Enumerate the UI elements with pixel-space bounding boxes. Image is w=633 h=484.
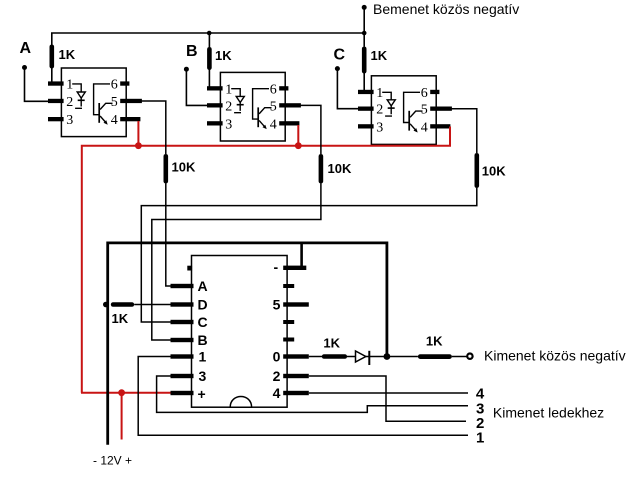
svg-text:2: 2 <box>225 99 232 114</box>
svg-text:4: 4 <box>111 113 118 128</box>
svg-text:10K: 10K <box>328 161 352 176</box>
svg-text:C: C <box>198 314 208 330</box>
svg-text:1K: 1K <box>59 47 76 62</box>
svg-text:5: 5 <box>270 99 277 114</box>
svg-text:A: A <box>198 278 208 294</box>
svg-text:3: 3 <box>199 368 207 384</box>
svg-text:Bemenet közös negatív: Bemenet közös negatív <box>373 1 519 17</box>
svg-text:6: 6 <box>111 78 118 93</box>
svg-text:B: B <box>198 332 208 348</box>
svg-text:4: 4 <box>273 385 281 401</box>
svg-text:4: 4 <box>421 120 428 135</box>
svg-text:1: 1 <box>199 349 207 365</box>
svg-text:Kimenet ledekhez: Kimenet ledekhez <box>493 404 604 420</box>
svg-text:1: 1 <box>225 82 232 97</box>
svg-text:6: 6 <box>421 86 428 101</box>
svg-text:Kimenet közös negatív: Kimenet közös negatív <box>484 348 626 364</box>
svg-text:2: 2 <box>376 103 383 118</box>
svg-text:5: 5 <box>421 103 428 118</box>
svg-text:3: 3 <box>376 120 383 135</box>
svg-text:A: A <box>20 40 32 57</box>
svg-text:10K: 10K <box>482 164 506 179</box>
svg-text:1K: 1K <box>371 48 388 63</box>
svg-text:6: 6 <box>270 82 277 97</box>
svg-text:1: 1 <box>376 86 383 101</box>
svg-text:-: - <box>274 259 279 275</box>
svg-text:10K: 10K <box>172 160 196 175</box>
svg-text:C: C <box>334 47 346 64</box>
svg-text:2: 2 <box>273 368 281 384</box>
svg-text:- 12V +: - 12V + <box>93 454 132 468</box>
svg-text:+: + <box>198 386 206 402</box>
svg-text:1K: 1K <box>112 311 129 326</box>
svg-text:D: D <box>198 297 208 313</box>
svg-text:1K: 1K <box>426 334 443 349</box>
svg-text:3: 3 <box>225 117 232 132</box>
svg-text:B: B <box>186 43 198 60</box>
svg-text:1K: 1K <box>323 336 340 351</box>
svg-text:5: 5 <box>273 297 281 313</box>
svg-text:1: 1 <box>476 429 484 446</box>
svg-text:5: 5 <box>111 95 118 110</box>
svg-text:1: 1 <box>66 78 73 93</box>
svg-text:4: 4 <box>270 117 277 132</box>
svg-text:3: 3 <box>66 113 73 128</box>
svg-text:2: 2 <box>66 95 73 110</box>
svg-text:1K: 1K <box>215 48 232 63</box>
svg-text:0: 0 <box>273 349 281 365</box>
